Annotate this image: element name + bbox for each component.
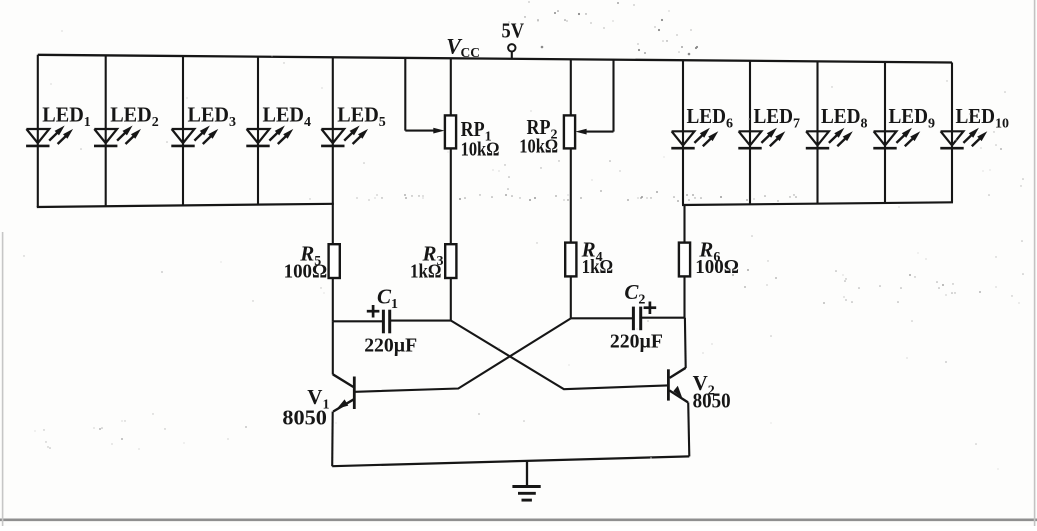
wire LED5 column [332, 57, 334, 321]
LED9 (light-emitting diode D9) [873, 128, 920, 148]
scan border bottom [0, 518, 1037, 521]
wire C1 left [333, 320, 382, 322]
svg-text:LED1: LED1 [42, 102, 91, 130]
svg-text:LED2: LED2 [110, 102, 159, 130]
svg-text:LED3: LED3 [188, 102, 237, 130]
svg-text:1kΩ: 1kΩ [410, 261, 442, 283]
RP2 wiper feed wire [575, 60, 613, 135]
wire LED6/R6 branch lower column [683, 205, 685, 318]
wire ground rail [332, 456, 689, 466]
wire LED9 column [884, 62, 886, 203]
wire C1 right [391, 320, 451, 322]
potentiometer RP1 body [445, 115, 456, 148]
LED5 (light-emitting diode D5) [321, 126, 368, 146]
LED2 (light-emitting diode D2) [94, 126, 141, 146]
svg-text:8050: 8050 [282, 405, 327, 429]
LED6 (light-emitting diode D6) [671, 128, 718, 148]
resistor R5 body [329, 244, 340, 278]
svg-text:8050: 8050 [693, 388, 731, 412]
LED4 (light-emitting diode D4) [246, 126, 293, 146]
svg-text:100Ω: 100Ω [284, 261, 328, 283]
svg-text:LED5: LED5 [337, 102, 386, 130]
wire LED10 column [951, 63, 953, 203]
wire C2 left [571, 317, 632, 319]
wire LED1 column [37, 55, 39, 207]
wire V2 emitter to ground rail [688, 402, 689, 456]
svg-text:10kΩ: 10kΩ [461, 139, 500, 160]
svg-text:220µF: 220µF [610, 330, 663, 352]
LED3 (light-emitting diode D3) [171, 126, 218, 146]
wire C2 right [642, 317, 685, 319]
svg-text:220µF: 220µF [364, 334, 417, 356]
wire LED7 column [749, 61, 751, 205]
wire V1 base to C2 junction (diagonal) [356, 318, 571, 391]
wire LED5/R5 branch lower column [332, 321, 334, 374]
wire V2 base to C1 junction (diagonal) [451, 321, 668, 390]
wire left LED bus bottom rail [37, 204, 334, 207]
svg-text:5V: 5V [502, 19, 525, 43]
wire V1 emitter to ground rail [331, 412, 334, 467]
5V supply terminal [508, 44, 515, 59]
LED1 (light-emitting diode D1) [26, 126, 73, 146]
svg-text:LED4: LED4 [263, 102, 312, 130]
wire LED4 column [257, 57, 259, 205]
C2 polarity plus [644, 302, 657, 315]
wire top Vcc power rail [38, 55, 952, 63]
wire LED3 column [182, 56, 184, 205]
RP1 wiper feed wire [405, 58, 444, 134]
resistor R4 body [565, 243, 576, 277]
wire LED2 column [105, 55, 107, 206]
capacitor C2 plates [633, 307, 640, 331]
wire R3 column (RP1 through C1 junction) [450, 58, 452, 320]
wire LED6 column [682, 60, 684, 205]
wire LED8 column [816, 61, 818, 203]
wire right LED bus bottom rail [682, 202, 953, 205]
C1 polarity plus [367, 305, 380, 318]
scan border left [2, 232, 4, 526]
svg-text:10kΩ: 10kΩ [519, 136, 558, 157]
scan border right [1034, 0, 1036, 526]
capacitor C1 plates [383, 310, 389, 334]
potentiometer RP2 body [564, 115, 575, 148]
transistor V1 (8050 NPN) [333, 374, 355, 411]
LED7 (light-emitting diode D7) [738, 128, 785, 148]
LED8 (light-emitting diode D8) [806, 128, 853, 148]
ground [512, 461, 540, 500]
resistor R6 body [679, 243, 690, 277]
transistor V2 (8050 NPN) [668, 368, 688, 403]
svg-text:1kΩ: 1kΩ [582, 256, 614, 278]
LED10 (light-emitting diode D10) [940, 128, 987, 148]
wire R4 column (RP2 through C2 junction) [570, 59, 572, 318]
resistor R3 body [445, 244, 456, 278]
